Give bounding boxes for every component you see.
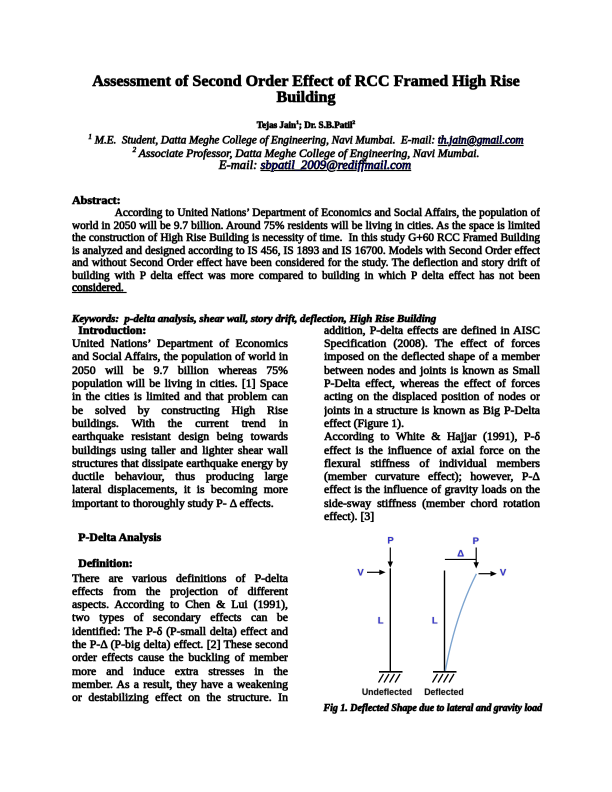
svg-text:P: P: [387, 536, 394, 547]
keywords: [72, 313, 540, 325]
svg-text:V: V: [500, 567, 507, 578]
heading P-Delta Analysis: [72, 531, 161, 544]
definition paragraph: [72, 572, 288, 705]
svg-text:L: L: [378, 616, 384, 627]
svg-text:Undeflected: Undeflected: [362, 687, 412, 697]
figure caption: [324, 703, 543, 715]
heading Introduction: [72, 324, 288, 337]
authors: [72, 118, 540, 130]
affiliation line 1: [72, 131, 540, 147]
V right arrow: [479, 573, 493, 575]
title: [72, 74, 540, 106]
ground right: [433, 671, 457, 673]
svg-text:L: L: [432, 616, 438, 627]
right column: [324, 324, 540, 523]
P left arrow: [389, 548, 391, 565]
delta offset line: [445, 558, 476, 560]
column undeflected: [389, 568, 391, 672]
affiliation line 3: [81, 158, 549, 172]
svg-text:V: V: [357, 567, 364, 578]
abstract heading: [72, 194, 121, 207]
P right arrow: [475, 548, 477, 565]
deflected curve: [445, 574, 476, 672]
abstract paragraph: [72, 207, 540, 295]
affiliation line 2: [72, 144, 540, 160]
left column: [72, 324, 288, 510]
figure 1: [340, 532, 516, 700]
svg-text:Deflected: Deflected: [424, 687, 464, 697]
heading Definition: [72, 557, 133, 570]
reference line deflected: [444, 571, 446, 672]
svg-text:Δ: Δ: [457, 548, 464, 559]
V left arrow: [367, 571, 381, 573]
svg-text:P: P: [473, 536, 480, 547]
ground left: [379, 671, 403, 673]
